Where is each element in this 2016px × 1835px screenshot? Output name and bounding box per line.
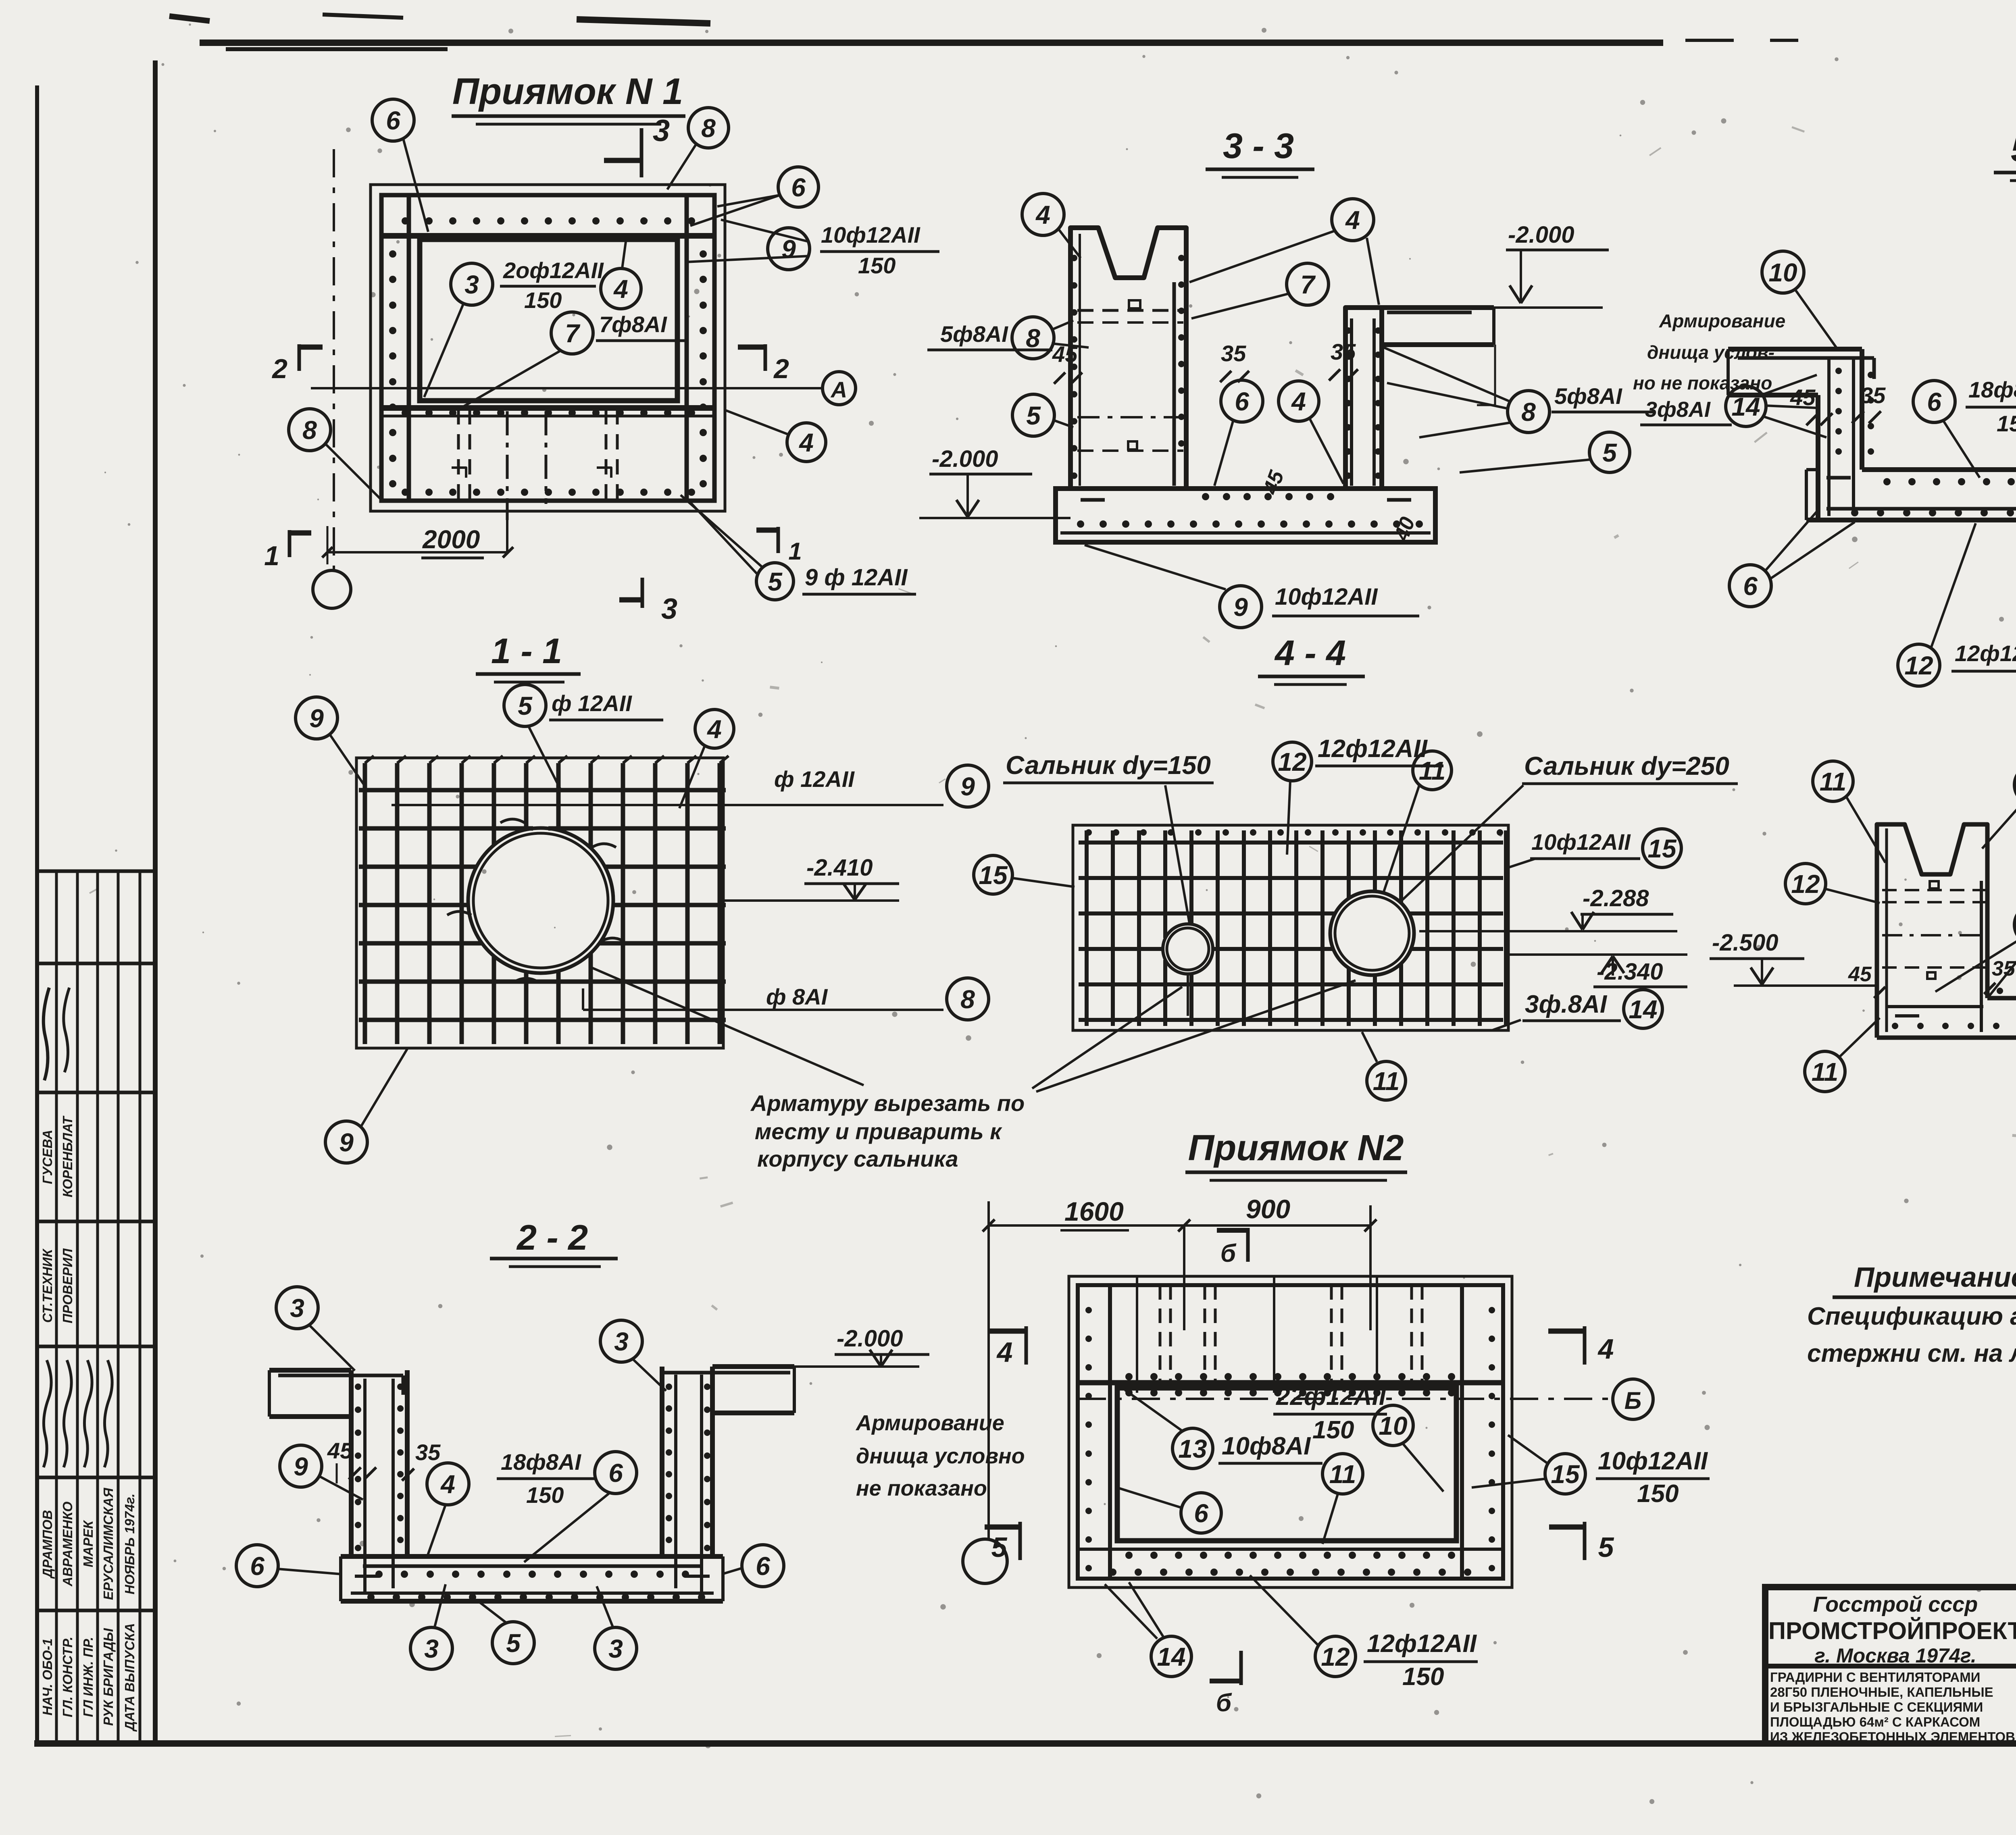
svg-text:ГЛ ИНЖ. ПР.: ГЛ ИНЖ. ПР. <box>81 1637 96 1717</box>
3-3 left trough rebar <box>1071 234 1185 486</box>
4-4 plate outline <box>1073 825 1508 1030</box>
svg-text:10ф12АII: 10ф12АII <box>1598 1447 1708 1475</box>
section mark 3 top <box>604 114 670 177</box>
2-2 floor slab <box>341 1556 723 1601</box>
svg-text:ПРОВЕРИЛ: ПРОВЕРИЛ <box>60 1248 75 1323</box>
svg-text:6: 6 <box>791 173 806 202</box>
pit N2 inner opening <box>1117 1388 1456 1541</box>
svg-text:10ф12АII: 10ф12АII <box>1531 829 1631 855</box>
5-5 callout 14 left + label 3ф8АI <box>1640 375 1826 437</box>
svg-text:НАЧ. ОБО-1: НАЧ. ОБО-1 <box>40 1638 55 1715</box>
svg-text:6: 6 <box>1743 572 1758 601</box>
view 1-1 title <box>476 631 581 682</box>
svg-text:1: 1 <box>264 541 279 571</box>
svg-text:-2.500: -2.500 <box>1712 930 1778 956</box>
svg-text:5ф8АI: 5ф8АI <box>1554 383 1622 409</box>
2-2 callout 3 top-left <box>276 1287 355 1371</box>
svg-text:-2.288: -2.288 <box>1583 885 1649 911</box>
view 4-4 title <box>1258 633 1365 684</box>
3-3 cover ticks 45 35 35 <box>1052 339 1420 544</box>
svg-text:15: 15 <box>979 861 1008 890</box>
Примечание title <box>1833 1261 2016 1297</box>
svg-text:2000: 2000 <box>422 525 480 554</box>
svg-text:45: 45 <box>1848 963 1872 986</box>
svg-text:3: 3 <box>608 1634 623 1663</box>
svg-text:13: 13 <box>1178 1434 1207 1463</box>
svg-text:3ф.8АI: 3ф.8АI <box>1525 990 1608 1018</box>
svg-text:12: 12 <box>1321 1642 1350 1671</box>
5-5 floor slab <box>1806 470 2016 520</box>
svg-text:СТ.ТЕХНИК: СТ.ТЕХНИК <box>40 1248 55 1323</box>
sheet left outer border <box>35 85 39 1743</box>
svg-text:Сальник dy=250: Сальник dy=250 <box>1524 751 1729 780</box>
leaders to note <box>589 967 1356 1092</box>
svg-text:11: 11 <box>1373 1067 1400 1096</box>
svg-text:3 - 3: 3 - 3 <box>1223 126 1294 166</box>
svg-text:11: 11 <box>1329 1460 1356 1489</box>
svg-text:5: 5 <box>518 691 533 720</box>
3-3 note армирование днища <box>1633 310 1785 393</box>
svg-text:10ф12АII: 10ф12АII <box>821 222 921 248</box>
6-6 callout 13 <box>1982 765 2016 849</box>
svg-text:ДАТА ВЫПУСКА: ДАТА ВЫПУСКА <box>122 1623 137 1732</box>
4-4 big sleeve hole <box>1330 891 1414 975</box>
sheet left frame border <box>153 60 158 1743</box>
svg-text:150: 150 <box>1637 1480 1679 1508</box>
svg-text:ПРОМСТРОЙПРОЕКТ: ПРОМСТРОЙПРОЕКТ <box>1768 1617 2016 1644</box>
svg-text:б: б <box>1216 1689 1232 1717</box>
1-1 level -2.410 <box>723 855 899 901</box>
pit N1 rebar dots <box>389 217 707 496</box>
svg-text:И БРЫЗГАЛЬНЫЕ С СЕКЦИЯМИ: И БРЫЗГАЛЬНЫЕ С СЕКЦИЯМИ <box>1770 1700 1983 1714</box>
pit N2 callout 11 <box>1322 1454 1363 1544</box>
pit N2 label 22ф12АII/150 + callout 10 <box>1273 1383 1443 1492</box>
svg-text:15: 15 <box>1647 834 1677 863</box>
pit N2 axis bubble left <box>963 1539 1007 1583</box>
3-3 callout 4 right pair <box>1189 199 1379 305</box>
4-4 label Сальник dy=150 <box>1003 751 1214 923</box>
2-2 callout 3 bottom-left <box>410 1584 452 1669</box>
svg-text:35: 35 <box>1221 341 1246 366</box>
5-5 callout 6 bottom-left <box>1729 512 1855 607</box>
svg-text:35: 35 <box>1331 339 1356 364</box>
svg-text:КОРЕНБЛАТ: КОРЕНБЛАТ <box>60 1115 75 1197</box>
section mark 2 left <box>271 344 323 384</box>
svg-text:5: 5 <box>506 1629 521 1658</box>
svg-text:3: 3 <box>614 1327 629 1356</box>
svg-text:МАРЕК: МАРЕК <box>81 1519 96 1567</box>
3-3 callout 5 right <box>1460 432 1630 472</box>
sheet top border <box>169 15 1798 49</box>
svg-text:3ф8АI: 3ф8АI <box>1645 397 1711 422</box>
pit N2 outer wall <box>1069 1276 1512 1587</box>
svg-text:14: 14 <box>1629 995 1657 1024</box>
pit N2 callout 14 <box>1105 1582 1191 1677</box>
5-5 left wall rebar <box>1829 359 1874 516</box>
svg-text:900: 900 <box>1246 1194 1290 1224</box>
6-6 callout 11 top-left <box>1813 761 1885 863</box>
svg-text:9 ф 12АII: 9 ф 12АII <box>805 564 908 591</box>
svg-text:10: 10 <box>1379 1411 1407 1440</box>
6-6 ticks <box>1848 946 2016 1099</box>
3-3 callout 9 + label 10ф12АII <box>1085 545 1419 628</box>
svg-text:-2.000: -2.000 <box>1508 222 1574 248</box>
svg-text:-2.410: -2.410 <box>806 855 873 881</box>
1-1 callout 9 top-left <box>296 697 365 786</box>
1-1 hole cut hooks <box>447 819 625 982</box>
svg-text:3: 3 <box>290 1294 304 1323</box>
svg-text:12ф12АII: 12ф12АII <box>1318 735 1428 763</box>
pit N1 dimension 2000 <box>322 525 513 564</box>
svg-text:6: 6 <box>1194 1499 1208 1528</box>
callout 8 top <box>667 108 729 189</box>
3-3 callout 8 left + label 5ф8АI <box>927 317 1089 359</box>
svg-text:11: 11 <box>1419 756 1445 785</box>
svg-text:б: б <box>1220 1240 1237 1267</box>
svg-text:1: 1 <box>788 538 802 565</box>
svg-text:-2.340: -2.340 <box>1597 959 1663 985</box>
6-6 floor and right wall outline <box>1877 872 2016 1038</box>
svg-text:не показано: не показано <box>856 1476 987 1500</box>
callout 5 + label 9ф12АII <box>681 495 916 600</box>
svg-text:5 - 5: 5 - 5 <box>2011 129 2016 169</box>
pit N2 callout 13 + label 10ф8АI <box>1125 1390 1322 1469</box>
view: Приямок N1 title <box>452 71 685 124</box>
svg-text:12: 12 <box>1791 870 1820 899</box>
svg-text:5ф8АI: 5ф8АI <box>940 321 1008 347</box>
svg-text:Сальник dy=150: Сальник dy=150 <box>1006 751 1211 780</box>
svg-text:5: 5 <box>1598 1531 1614 1563</box>
svg-text:2: 2 <box>773 354 789 384</box>
svg-text:150: 150 <box>1997 411 2016 436</box>
pit N2 dashed bars top band <box>1137 1276 1422 1393</box>
svg-text:ф 8АI: ф 8АI <box>766 984 828 1009</box>
svg-text:15: 15 <box>1551 1460 1580 1489</box>
svg-text:4: 4 <box>1035 200 1050 229</box>
pit N2 dimensions 1600 900 <box>983 1194 1377 1539</box>
title block: small description <box>1770 1670 2015 1744</box>
pit N1 wall vertical bars <box>409 195 687 501</box>
Примечание text <box>1807 1302 2016 1367</box>
pit N2 callout 15 + label 10ф12АII/150 <box>1472 1435 1710 1508</box>
callout 7 + label 7ф8АI <box>464 312 685 406</box>
2-2 level -2.000 <box>794 1325 929 1367</box>
svg-text:ГУСЕВА: ГУСЕВА <box>40 1130 55 1184</box>
3-3 level -2.000 left <box>919 446 1070 518</box>
svg-text:стержни см. на листе АС-15: стержни см. на листе АС-15 <box>1807 1340 2016 1367</box>
section mark 2 right <box>738 344 789 384</box>
svg-text:4 - 4: 4 - 4 <box>1274 633 1346 673</box>
section mark 5 left <box>985 1522 1020 1563</box>
svg-text:7: 7 <box>1300 270 1316 299</box>
svg-text:10: 10 <box>1768 258 1797 287</box>
svg-text:11: 11 <box>1812 1057 1838 1086</box>
2-2 ticks 45 35 <box>327 1438 441 1483</box>
svg-text:корпусу сальника: корпусу сальника <box>757 1146 958 1171</box>
svg-text:4: 4 <box>1597 1333 1614 1365</box>
pit N2 rebar dots <box>1085 1307 1495 1576</box>
view 2-2 title <box>490 1217 618 1267</box>
callout 8 left <box>289 409 381 499</box>
svg-text:ГРАДИРНИ С ВЕНТИЛЯТОРАМИ: ГРАДИРНИ С ВЕНТИЛЯТОРАМИ <box>1770 1670 1980 1685</box>
1-1 label ф8АI + callout 8 <box>583 978 989 1020</box>
svg-text:22ф12АII: 22ф12АII <box>1276 1383 1387 1411</box>
pit N1 bottom band bar <box>381 408 714 416</box>
pit N2 axis line B <box>1078 1379 1653 1419</box>
section mark 4 right <box>1548 1326 1614 1365</box>
svg-text:11: 11 <box>1820 767 1846 796</box>
pit N1 outer wall <box>371 185 725 511</box>
callout 4 <box>601 242 641 309</box>
1-1 pipe hole <box>468 828 613 973</box>
sheet bottom border <box>34 1740 2016 1747</box>
svg-text:6: 6 <box>386 106 400 135</box>
1-1 callout 9 bottom-left <box>325 1049 407 1163</box>
svg-text:месту и приварить к: месту и приварить к <box>755 1119 1002 1144</box>
6-6 left trough outline <box>1877 824 1987 1038</box>
svg-text:Армирование: Армирование <box>1659 310 1785 331</box>
3-3 right wall rebar <box>1345 318 1381 486</box>
section mark 6 bottom <box>1210 1651 1241 1717</box>
svg-text:9: 9 <box>1233 593 1248 622</box>
4-4 label Сальник dy=250 <box>1399 751 1738 903</box>
svg-text:Б: Б <box>1624 1387 1641 1414</box>
callout 4 bottom-right <box>726 410 826 462</box>
6-6 left trough rebar <box>1882 828 1986 1032</box>
3-3 callout 7 <box>1191 263 1329 318</box>
svg-text:2 - 2: 2 - 2 <box>516 1217 588 1257</box>
svg-text:ИЗ ЖЕЛЕЗОБЕТОННЫХ ЭЛЕМЕНТОВ: ИЗ ЖЕЛЕЗОБЕТОННЫХ ЭЛЕМЕНТОВ <box>1770 1729 2015 1744</box>
svg-text:1600: 1600 <box>1064 1196 1124 1226</box>
6-6 callout 11 mid <box>1935 905 2016 998</box>
svg-text:4: 4 <box>1345 206 1360 235</box>
pit N2 wall vertical bars <box>1110 1285 1462 1579</box>
4-4 callout 15 left <box>974 855 1075 894</box>
2-2 callout 4 <box>427 1463 469 1556</box>
3-3 callout 8 right + label <box>1384 347 1653 437</box>
svg-text:1 - 1: 1 - 1 <box>491 631 562 671</box>
svg-text:ГЛ. КОНСТР.: ГЛ. КОНСТР. <box>60 1637 75 1717</box>
1-1 callout 5 + label ф12АII <box>504 684 663 791</box>
svg-text:ф 12АII: ф 12АII <box>774 766 855 792</box>
svg-text:АВРАМЕНКО: АВРАМЕНКО <box>60 1502 75 1587</box>
5-5 ticks 45 35 <box>1790 383 1886 425</box>
svg-text:150: 150 <box>1312 1416 1354 1444</box>
svg-text:6: 6 <box>608 1458 623 1488</box>
2-2 callout 6 right <box>722 1545 784 1587</box>
svg-text:10ф12АII: 10ф12АII <box>1275 584 1378 610</box>
2-2 callout 5 bottom <box>480 1602 534 1664</box>
svg-text:18ф8АI: 18ф8АI <box>1968 377 2016 402</box>
6-6 callout 11 bottom-left <box>1805 1018 1880 1092</box>
svg-text:9: 9 <box>309 704 324 733</box>
svg-text:8: 8 <box>1026 324 1040 353</box>
2-2 callout 6 left <box>236 1545 342 1587</box>
svg-text:150: 150 <box>1402 1663 1444 1691</box>
section mark 4 left <box>990 1326 1026 1368</box>
4-4 label 10ф12АII + callout 15 right <box>1508 829 1681 868</box>
svg-text:5: 5 <box>768 567 783 596</box>
2-2 left slab <box>269 1370 403 1417</box>
svg-text:6: 6 <box>756 1552 770 1581</box>
svg-text:14: 14 <box>1731 392 1760 421</box>
svg-text:10ф8АI: 10ф8АI <box>1222 1432 1311 1460</box>
4-4 callout 11 bottom <box>1362 1032 1406 1100</box>
callout 3 + label 20ф12АII/150 <box>424 258 604 397</box>
1-1 callout 4 top <box>679 709 734 808</box>
svg-text:Госстрой ссср: Госстрой ссср <box>1813 1592 1978 1617</box>
section mark 6 top <box>1217 1228 1248 1267</box>
pit N1 top band bar <box>381 233 714 239</box>
2-2 right slab <box>661 1367 794 1413</box>
3-3 right slab <box>1382 308 1494 345</box>
5-5 callout 12 + label 12ф12АII <box>1898 523 2016 686</box>
5-5 left wall <box>1818 349 1862 518</box>
svg-text:г. Москва 1974г.: г. Москва 1974г. <box>1814 1644 1976 1667</box>
view Приямок N2 title <box>1185 1128 1407 1180</box>
3-3 right wall <box>1345 308 1382 489</box>
pit N2 callout 6 <box>1117 1488 1221 1533</box>
svg-text:9: 9 <box>294 1452 308 1481</box>
svg-text:150: 150 <box>526 1482 564 1508</box>
svg-text:12ф12АII: 12ф12АII <box>1367 1630 1477 1658</box>
view 3-3 title <box>1206 126 1314 177</box>
svg-text:28Г50 ПЛЕНОЧНЫЕ, КАПЕЛЬНЫЕ: 28Г50 ПЛЕНОЧНЫЕ, КАПЕЛЬНЫЕ <box>1770 1685 1993 1700</box>
pit N1 axis line A <box>311 372 856 405</box>
pit N1 dashed bars bottom band <box>452 409 617 551</box>
svg-text:35: 35 <box>415 1440 441 1465</box>
signature table rotated labels <box>40 988 137 1732</box>
view 5-5 title <box>1994 129 2016 181</box>
callout 9 right + label <box>685 220 939 278</box>
svg-text:7ф8АI: 7ф8АI <box>599 312 667 337</box>
svg-text:45: 45 <box>327 1438 353 1463</box>
6-6 level -2.500 <box>1710 930 1877 986</box>
2-2 left wall <box>351 1370 407 1592</box>
5-5 left slab <box>1728 349 1862 395</box>
svg-text:9: 9 <box>960 772 975 801</box>
svg-text:Приямок N2: Приямок N2 <box>1188 1128 1404 1168</box>
4-4 label 3ф.8АI + callout 14 <box>1492 990 1662 1030</box>
4-4 level -2.340 <box>1508 955 1687 987</box>
5-5 left slab rebar <box>1738 358 1874 379</box>
section mark 5 right <box>1549 1522 1614 1563</box>
3-3 callout 6 <box>1214 380 1263 486</box>
2-2 right wall <box>662 1367 712 1592</box>
3-3 callout 4 left <box>1022 193 1081 258</box>
svg-text:А: А <box>830 377 847 402</box>
svg-text:ф 12АII: ф 12АII <box>552 691 632 716</box>
svg-text:Примечание.: Примечание. <box>1854 1261 2016 1293</box>
svg-text:ДРАМПОВ: ДРАМПОВ <box>40 1510 55 1579</box>
svg-text:ПЛОЩАДЬЮ 64м² С КАРКАСОМ: ПЛОЩАДЬЮ 64м² С КАРКАСОМ <box>1770 1714 1980 1729</box>
signature table grid <box>37 871 155 1743</box>
svg-text:5: 5 <box>1602 438 1617 467</box>
svg-text:ЕРУСАЛИМСКАЯ: ЕРУСАЛИМСКАЯ <box>101 1488 116 1600</box>
callout 6 right <box>690 167 818 226</box>
pit N1 inner opening <box>420 239 677 401</box>
6-6 floor rebar <box>1887 988 2016 1029</box>
title block frame <box>1765 1587 2016 1743</box>
title block: design office <box>1768 1592 2016 1667</box>
svg-text:4: 4 <box>996 1336 1013 1368</box>
svg-text:3: 3 <box>661 593 677 625</box>
svg-text:РУК БРИГАДЫ: РУК БРИГАДЫ <box>101 1628 116 1726</box>
callout 6 top-left <box>372 99 428 232</box>
svg-text:6: 6 <box>1927 387 1941 416</box>
4-4 callout 12 + label 12ф12АII <box>1273 735 1443 855</box>
4-4 level -2.288 <box>1419 885 1677 931</box>
svg-text:Спецификацию арматуры на от: Спецификацию арматуры на отдельные <box>1807 1302 2016 1330</box>
pit N2 bottom band bar <box>1078 1548 1503 1551</box>
svg-text:4: 4 <box>613 275 628 304</box>
pit N1 axis line vertical <box>313 149 351 608</box>
svg-text:4: 4 <box>798 428 814 457</box>
svg-text:2: 2 <box>271 354 287 384</box>
svg-text:5: 5 <box>1026 401 1041 430</box>
svg-text:8: 8 <box>1521 397 1536 427</box>
svg-text:150: 150 <box>858 253 896 278</box>
3-3 level -2.000 right <box>1383 222 1609 405</box>
svg-text:3: 3 <box>464 270 479 299</box>
svg-text:4: 4 <box>1291 387 1306 416</box>
3-3 left trough outline <box>1070 228 1186 489</box>
svg-text:12: 12 <box>1278 747 1306 776</box>
svg-text:12: 12 <box>1904 651 1933 680</box>
svg-text:НОЯБРЬ 1974г.: НОЯБРЬ 1974г. <box>122 1494 137 1594</box>
svg-text:6: 6 <box>1235 387 1249 416</box>
1-1 mesh plate outline <box>356 758 723 1048</box>
svg-text:днища условно: днища условно <box>856 1444 1025 1468</box>
3-3 foundation slab <box>1056 489 1435 542</box>
svg-text:4: 4 <box>440 1470 455 1499</box>
svg-text:3: 3 <box>653 114 670 148</box>
svg-text:5: 5 <box>991 1531 1008 1563</box>
1-1 mesh bars <box>359 756 729 1044</box>
2-2 callout 3 bottom-right <box>595 1586 637 1669</box>
svg-text:3: 3 <box>424 1634 439 1663</box>
svg-text:-2.000: -2.000 <box>837 1325 903 1352</box>
svg-text:9: 9 <box>339 1128 354 1157</box>
svg-text:Арматуру вырезать по: Арматуру вырезать по <box>750 1090 1025 1116</box>
1-1 note cut rebar <box>750 1090 1025 1171</box>
svg-text:2оф12АII: 2оф12АII <box>503 258 604 283</box>
svg-text:4: 4 <box>706 715 722 744</box>
svg-text:Армирование: Армирование <box>855 1411 1004 1435</box>
5-5 callout 10 left <box>1762 251 1839 351</box>
section mark 1 left <box>264 530 311 571</box>
2-2 callout 9 <box>280 1445 363 1500</box>
section mark 3 bottom <box>619 578 677 625</box>
4-4 mesh bars <box>1079 829 1506 1026</box>
pit N2 callout 12 + label 12ф12АII/150 <box>1250 1575 1478 1691</box>
svg-text:8: 8 <box>302 416 317 445</box>
6-6 callout 12 <box>1785 863 1880 904</box>
1-1 label ф12АII right + callout 9 <box>392 765 989 807</box>
svg-text:8: 8 <box>701 114 716 143</box>
section mark 1 right <box>756 527 802 565</box>
svg-text:Приямок N 1: Приямок N 1 <box>452 71 683 112</box>
svg-text:6: 6 <box>250 1552 264 1581</box>
4-4 callout 11 top <box>1384 751 1452 892</box>
4-4 small sleeve hole <box>1163 924 1213 1016</box>
3-3 callout 5 left <box>1012 394 1073 436</box>
svg-text:12ф12АII: 12ф12АII <box>1955 641 2016 666</box>
svg-text:но не показано: но не показано <box>1633 372 1772 393</box>
svg-text:35: 35 <box>1860 383 1886 408</box>
3-3 callout 4 bottom <box>1279 381 1343 484</box>
svg-text:8: 8 <box>960 985 975 1014</box>
